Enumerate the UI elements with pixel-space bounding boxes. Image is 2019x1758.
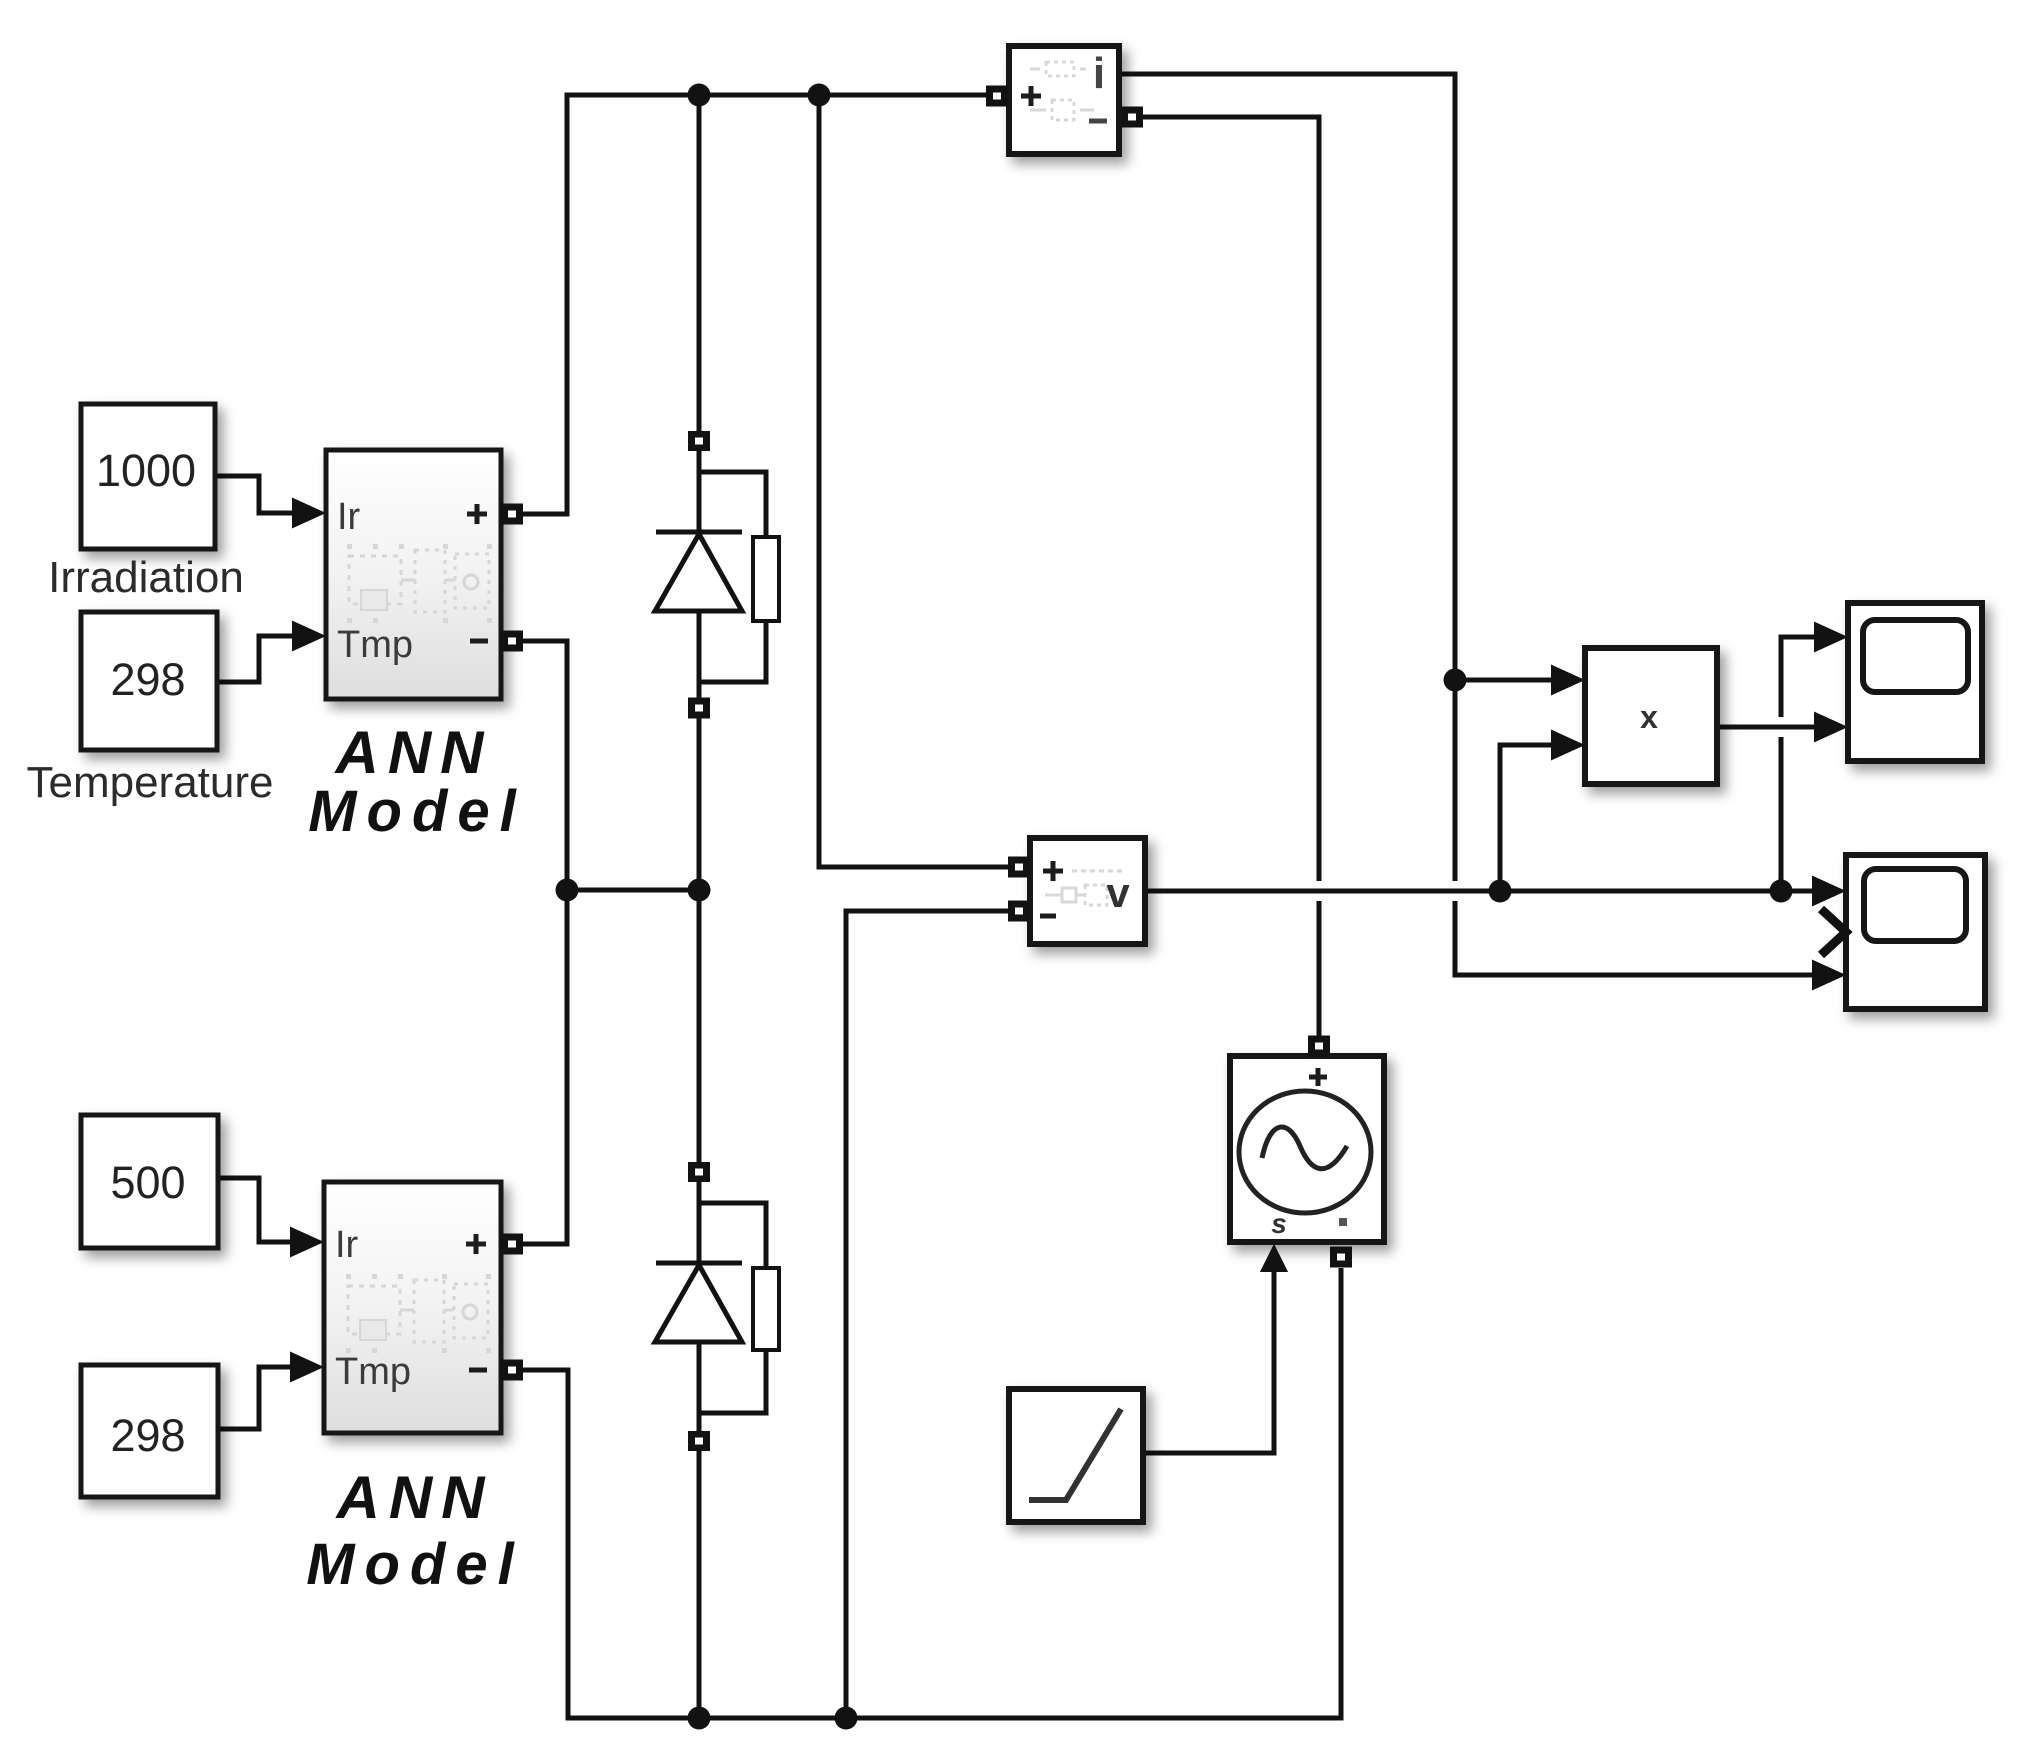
wire ANN1 minus output down to node M [522,641,567,890]
svg-text:298: 298 [110,1410,185,1461]
port ANN2 minus output [501,1360,523,1381]
wire Irradiation constant to ANN1 Ir input [215,476,326,529]
label ANN 1 [334,719,493,786]
label ANN 2 [335,1464,494,1531]
svg-text:500: 500 [110,1157,185,1208]
junction current signal to product [1444,669,1467,692]
wire top rail down to diode D1 top port [697,95,702,434]
port ANN1 plus output [501,504,523,525]
wire current sensor minus port down to controlled voltage source plus port [1142,117,1319,1036]
port D2 top [688,1162,710,1182]
label Irradiation [48,553,244,602]
svg-text:i: i [1093,49,1105,98]
wire ANN1 plus output to current sensor positive rail [522,95,986,514]
wire D1 port to D1 cathode [697,448,702,532]
label Model 2 [306,1532,524,1597]
label Model 1 [308,779,526,844]
junction negative rail and diode D2 [688,1707,711,1730]
svg-text:Tmp: Tmp [335,1351,411,1393]
wire ANN2 plus output up to node M [522,890,567,1244]
subsystem ANN Model 1 [326,450,501,699]
constant block 500 [81,1115,218,1248]
wire ramp output up into source signal input [1143,1244,1288,1453]
wire voltmeter minus input down to negative rail [846,911,1008,1718]
svg-text:Irradiation: Irradiation [48,553,244,602]
scope block 1 [1848,603,1982,761]
junction voltage signal to scope1 [1770,880,1793,903]
port D1 top [688,431,710,451]
svg-text:298: 298 [110,654,185,705]
wire current sensor i signal down to product and scope2 lower input [1121,74,1846,991]
wire D2 anode to D2 bottom port [697,1342,702,1433]
port source plus input [1308,1036,1330,1057]
arrow source signal s input [1260,1244,1288,1272]
wire node M to diode string midpoint [567,888,699,893]
wire D1 resistor parallel loop [699,472,766,682]
wire voltage signal branch up to scope1 input 1 [1781,622,1848,892]
current measurement block i [1009,46,1119,154]
port D2 bottom [688,1431,710,1451]
wire Temperature constant to ANN1 Tmp input [217,621,326,683]
wire voltmeter v output to scope2 upper input [1145,876,1846,907]
junction node M at diode string midpoint [688,879,711,902]
wire current signal branch to product input 1 [1455,665,1585,696]
junction node M at ANN series connection [556,879,579,902]
port D1 bottom [688,698,710,719]
port ANN1 minus output [501,631,523,652]
controlled voltage source [1230,1056,1384,1242]
constant block 298 lower [81,1365,218,1497]
voltage measurement block v [1030,838,1145,944]
svg-text:Ir: Ir [337,496,361,538]
port v input minus [1008,901,1030,922]
diode D1 [655,532,742,611]
wire product output to scope1 input 2 [1717,712,1848,743]
svg-text:x: x [1640,699,1658,735]
resistor R1 [753,537,779,621]
junction top rail and voltmeter branch [808,84,831,107]
svg-text:Model: Model [308,779,526,844]
wire voltage signal branch to product input 2 [1500,730,1585,892]
wire positive rail junction down to voltmeter plus input [819,95,1008,867]
svg-text:Temperature: Temperature [26,758,273,807]
port i input plus [986,86,1008,107]
product block x [1585,648,1717,784]
svg-text:s: s [1271,1208,1287,1239]
port v input plus [1008,857,1030,878]
svg-text:1000: 1000 [96,445,196,496]
resistor R2 [753,1268,779,1350]
unconnected scope2 middle input port [1821,909,1846,955]
svg-text:ANN: ANN [334,719,493,786]
junction top rail and diode D1 [688,84,711,107]
svg-text:Tmp: Tmp [337,624,413,666]
wire D2 bottom port down to negative rail [697,1447,702,1718]
port source minus output [1330,1247,1352,1268]
junction voltage signal to product [1489,880,1512,903]
svg-text:v: v [1106,869,1130,916]
label Temperature [26,758,273,807]
wire ANN2 minus output to bottom negative rail and up to source minus port [522,1268,1341,1718]
svg-text:ANN: ANN [335,1464,494,1531]
constant block 298 temperature [81,612,217,750]
svg-text:Model: Model [306,1532,524,1597]
svg-text:Ir: Ir [335,1224,359,1266]
wire 500 constant to ANN2 Ir input [218,1178,324,1258]
wire D2 resistor parallel loop [699,1203,766,1413]
subsystem ANN Model 2 [324,1182,501,1433]
wire D1 anode through mid node down to diode D2 cathode [697,611,702,1263]
diode D2 [655,1263,742,1342]
port ANN2 plus output [501,1234,523,1255]
wire 298 constant to ANN2 Tmp input [218,1352,324,1430]
junction negative rail and voltmeter minus branch [835,1707,858,1730]
scope block 2 [1846,855,1985,1009]
constant block 1000 [81,404,215,549]
port i output minus [1121,107,1143,128]
ramp block [1009,1389,1143,1522]
